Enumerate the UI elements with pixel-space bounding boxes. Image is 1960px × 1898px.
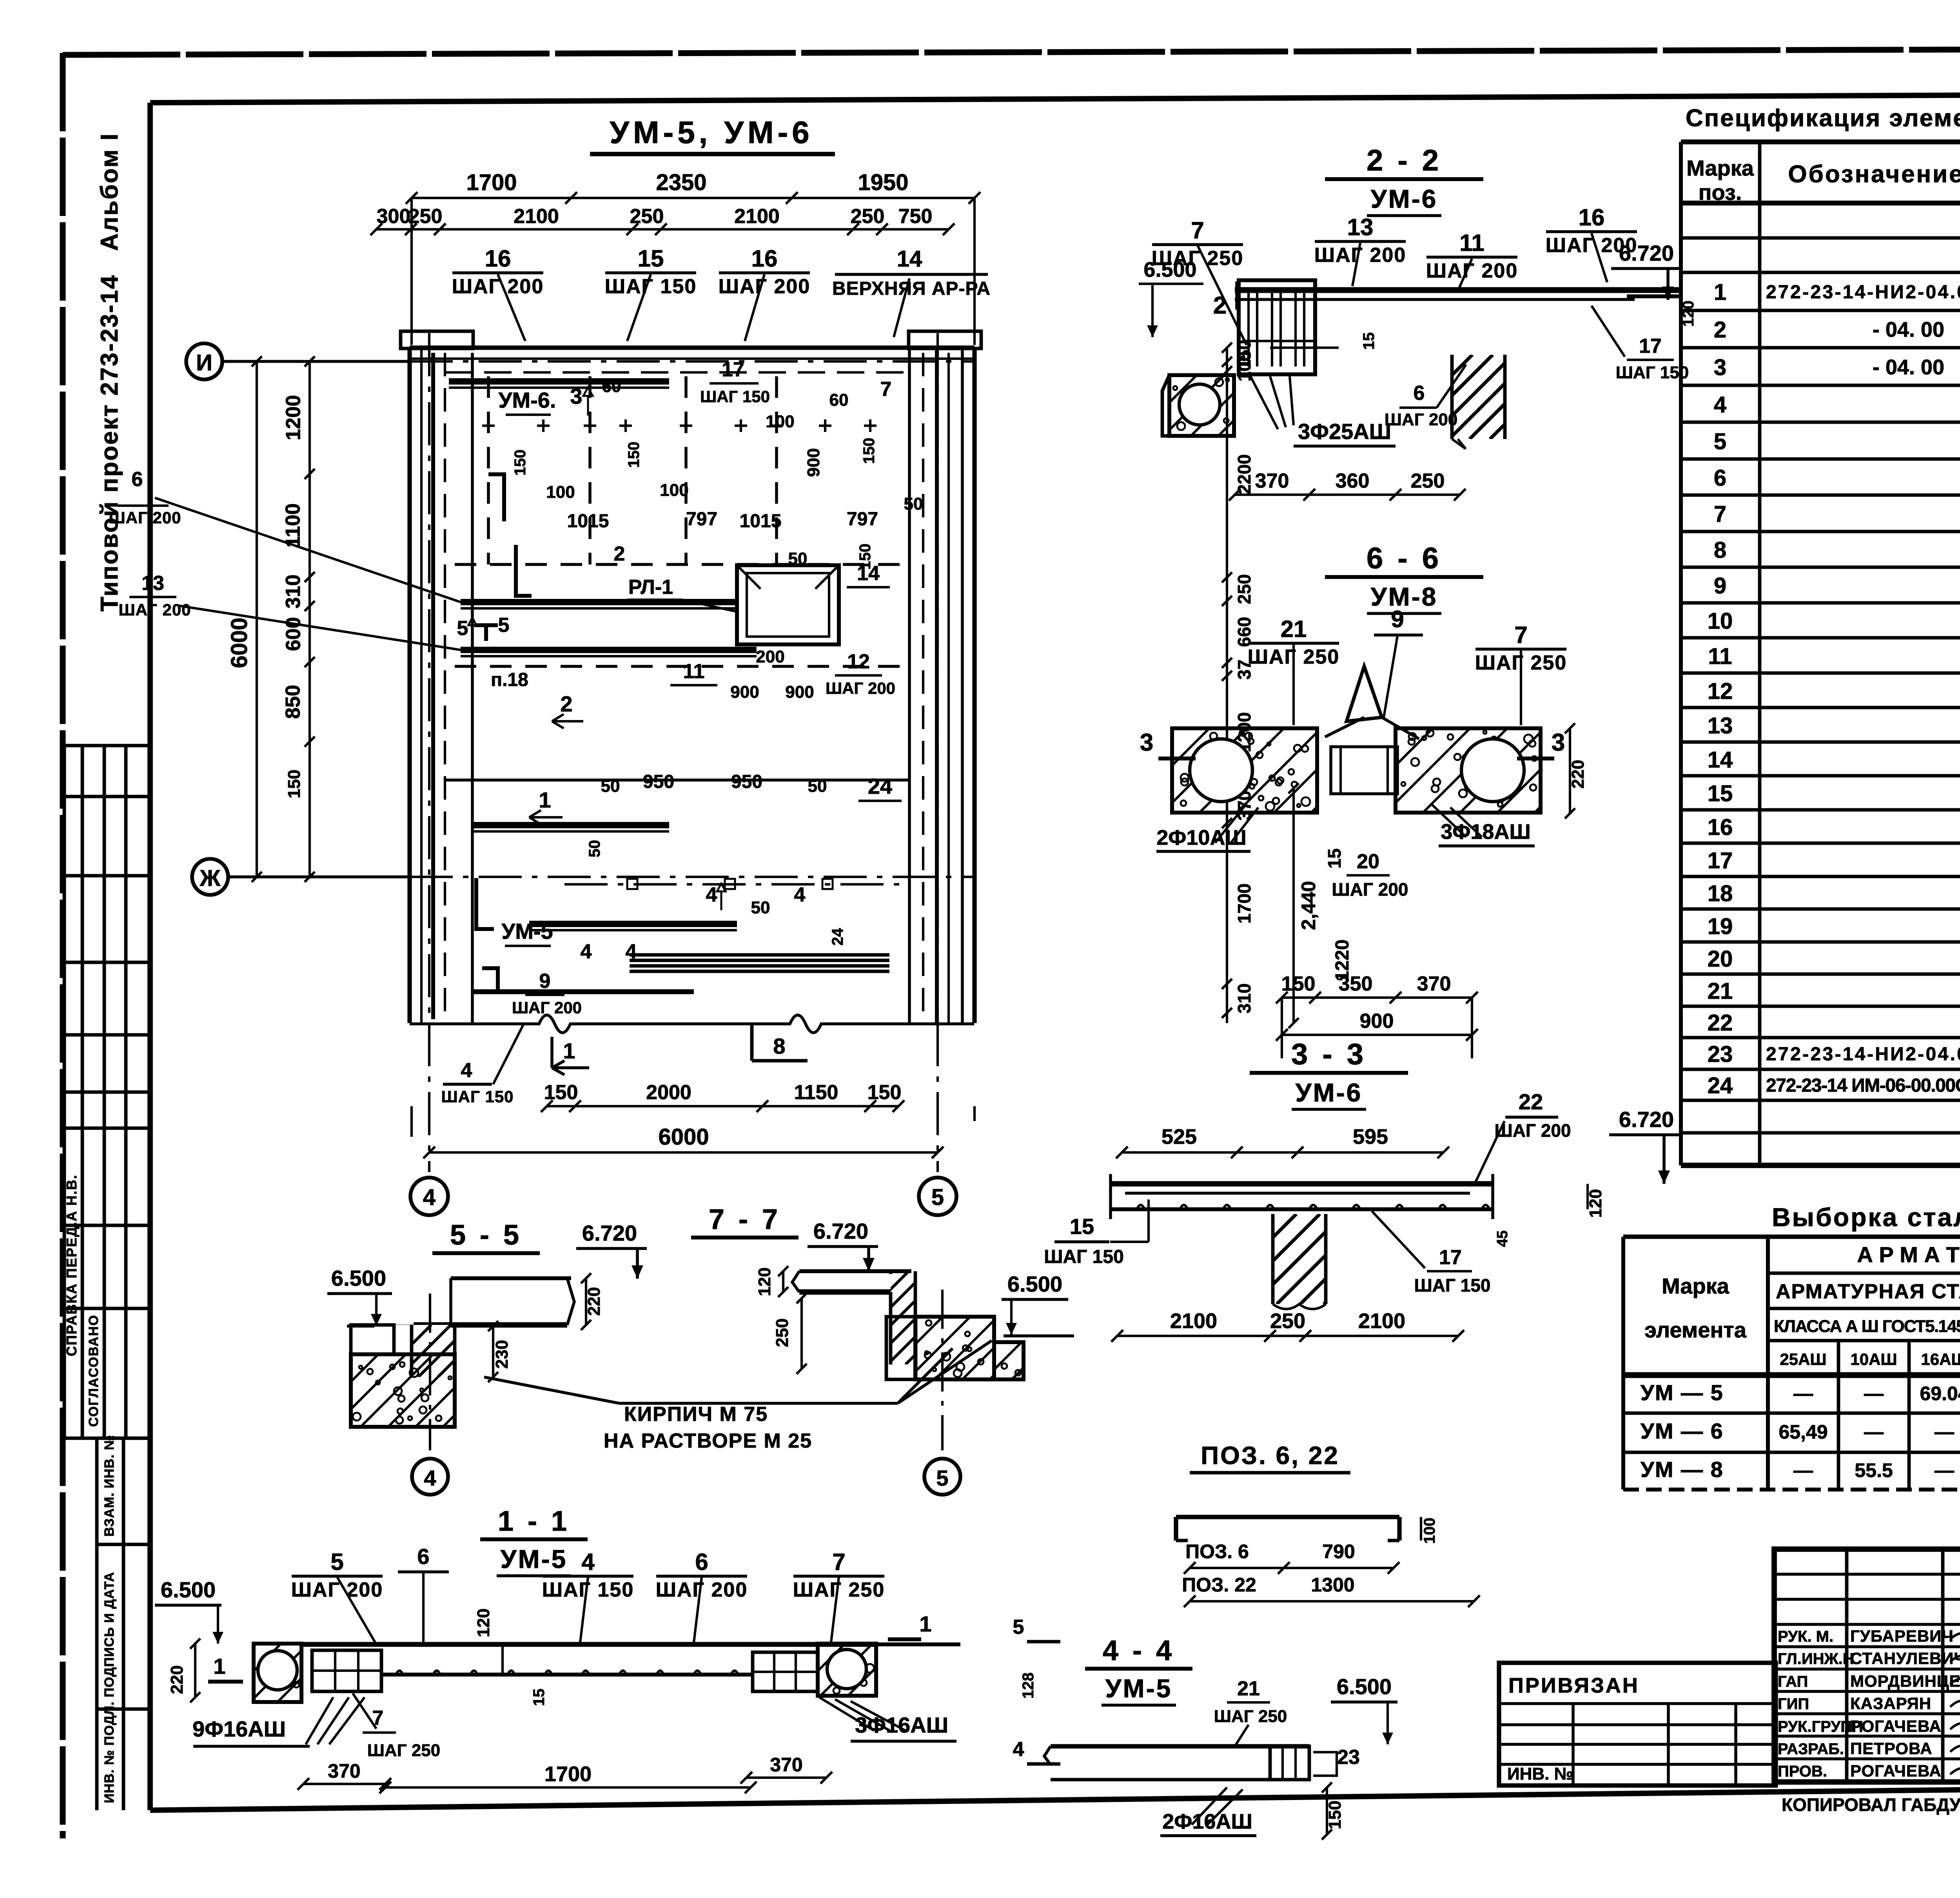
svg-text:5: 5: [1013, 1616, 1024, 1639]
svg-text:6: 6: [1714, 465, 1726, 491]
plan small cross markers: [482, 425, 495, 427]
svg-text:23: 23: [1337, 1746, 1360, 1769]
svg-text:150: 150: [512, 450, 529, 476]
svg-text:150: 150: [625, 442, 642, 468]
svg-text:6.500: 6.500: [161, 1577, 216, 1602]
svg-text:65,49: 65,49: [1779, 1421, 1828, 1443]
svg-text:ШАГ 200: ШАГ 200: [1332, 879, 1408, 900]
svg-text:1: 1: [539, 788, 551, 812]
section 3-3 column: [1183, 1214, 1414, 1304]
plan bottom dims: [547, 1105, 898, 1107]
svg-text:13: 13: [1708, 713, 1733, 739]
svg-text:525: 525: [1161, 1125, 1197, 1149]
section 7-7 axis circle 5: [924, 1459, 960, 1495]
svg-text:ВЗАМ. ИНВ. №: ВЗАМ. ИНВ. №: [102, 1435, 117, 1537]
plan axis dashdot verticals: [428, 333, 430, 1172]
svg-text:ШАГ 150: ШАГ 150: [1414, 1275, 1490, 1296]
section 3-3 slab: [1109, 1181, 1494, 1187]
svg-text:7: 7: [1714, 501, 1726, 527]
svg-text:3: 3: [570, 384, 582, 408]
inner frame bottom: [150, 1783, 1960, 1810]
svg-text:—: —: [1935, 1459, 1954, 1481]
svg-text:ШАГ 150: ШАГ 150: [1044, 1247, 1124, 1267]
plan leader lines from labels: [155, 498, 461, 602]
svg-text:16: 16: [1579, 204, 1605, 230]
section 6-6 bottom dims: [1282, 996, 1472, 999]
section 6-6 monolith triangle: [1347, 666, 1382, 721]
svg-text:5: 5: [1714, 429, 1726, 454]
section 2-2 hatched wall: [1368, 355, 1574, 439]
plan left dim chain: [309, 361, 311, 877]
svg-text:200: 200: [756, 647, 784, 666]
svg-text:16: 16: [485, 245, 511, 272]
svg-text:310: 310: [1234, 983, 1254, 1014]
svg-text:6000: 6000: [227, 617, 252, 668]
svg-text:И: И: [196, 350, 212, 376]
svg-text:5: 5: [457, 617, 468, 640]
inner frame top: [150, 93, 1960, 103]
svg-text:13: 13: [1347, 214, 1374, 240]
svg-text:5: 5: [936, 1466, 948, 1490]
plan doubled bar shadows: [449, 386, 669, 389]
svg-text:ШАГ 150: ШАГ 150: [700, 387, 770, 406]
section 4-4 slab: [1051, 1744, 1309, 1748]
section 2-2 brick block: [1169, 375, 1234, 436]
svg-text:—: —: [1935, 1421, 1954, 1443]
svg-text:1100: 1100: [282, 503, 305, 548]
svg-text:797: 797: [847, 509, 878, 530]
svg-text:21: 21: [1708, 978, 1733, 1004]
svg-text:1: 1: [213, 1654, 225, 1678]
section 1-1 slab: [301, 1642, 876, 1647]
svg-text:ПЕТРОВА: ПЕТРОВА: [1850, 1739, 1933, 1758]
svg-text:ШАГ 200: ШАГ 200: [109, 508, 181, 527]
svg-text:850: 850: [282, 685, 305, 719]
svg-text:22: 22: [1519, 1089, 1543, 1114]
sidebar approval table: [64, 744, 149, 748]
svg-text:6.500: 6.500: [1337, 1674, 1392, 1699]
svg-text:1: 1: [1714, 279, 1726, 305]
plan opening RL-1: [737, 565, 839, 644]
svg-text:УМ-5: УМ-5: [501, 919, 553, 944]
svg-text:128: 128: [1020, 1673, 1037, 1699]
svg-text:Ж: Ж: [200, 866, 221, 891]
svg-text:250: 250: [630, 205, 664, 228]
svg-text:60: 60: [602, 377, 621, 396]
svg-text:ПРИВЯЗАН: ПРИВЯЗАН: [1508, 1674, 1639, 1697]
svg-text:21: 21: [1237, 1677, 1260, 1700]
plan hidden opening dashed: [487, 376, 490, 564]
svg-text:- 04. 00: - 04. 00: [1873, 318, 1944, 341]
svg-text:2: 2: [1213, 292, 1227, 319]
plan axis I: [186, 343, 222, 379]
svg-text:6.720: 6.720: [1619, 1107, 1674, 1132]
svg-text:1 - 1: 1 - 1: [498, 1506, 570, 1537]
section 5-5 axis: [429, 1294, 431, 1450]
svg-text:5: 5: [498, 614, 510, 637]
svg-text:6000: 6000: [658, 1124, 709, 1150]
svg-text:3: 3: [1714, 355, 1726, 380]
svg-text:900: 900: [1360, 1010, 1394, 1032]
table 1 grid: [1681, 140, 1960, 145]
svg-text:КЛАССА А Ш ГОСТ5.1459-72, Ф мм: КЛАССА А Ш ГОСТ5.1459-72, Ф мм: [1774, 1317, 1960, 1336]
svg-text:УМ — 6: УМ — 6: [1641, 1419, 1724, 1443]
svg-text:3Ф16АШ: 3Ф16АШ: [855, 1713, 948, 1737]
section 5-5 axis circle 4: [412, 1459, 448, 1495]
svg-text:6.500: 6.500: [331, 1266, 386, 1290]
svg-text:797: 797: [686, 509, 717, 530]
svg-text:250: 250: [408, 205, 443, 228]
svg-text:15: 15: [1324, 848, 1345, 868]
svg-text:900: 900: [730, 682, 759, 702]
svg-text:6.720: 6.720: [813, 1219, 868, 1243]
section 2-2 karkas box: [1239, 280, 1315, 374]
svg-text:25АШ: 25АШ: [1780, 1350, 1826, 1368]
svg-text:16АШ: 16АШ: [1921, 1350, 1960, 1368]
svg-text:8: 8: [773, 1034, 785, 1058]
svg-text:1700: 1700: [466, 170, 517, 195]
svg-text:16: 16: [1708, 815, 1733, 840]
svg-text:РОГАЧЕВА: РОГАЧЕВА: [1850, 1762, 1942, 1780]
svg-text:16: 16: [751, 245, 778, 272]
svg-text:2,440: 2,440: [1298, 881, 1319, 930]
plan axis Zh: [192, 859, 228, 895]
section 1-1 left karkas box: [312, 1650, 381, 1691]
svg-text:14: 14: [897, 246, 922, 272]
svg-text:ШАГ 200: ШАГ 200: [1385, 410, 1458, 429]
svg-text:6: 6: [417, 1544, 429, 1569]
svg-text:УМ — 5: УМ — 5: [1641, 1380, 1724, 1405]
svg-text:790: 790: [1322, 1541, 1355, 1562]
svg-text:10АШ: 10АШ: [1850, 1350, 1897, 1368]
svg-text:15: 15: [1070, 1214, 1094, 1239]
outer border left: [60, 53, 66, 1838]
section 2-2 bottom dims: [1235, 494, 1460, 496]
svg-text:230: 230: [492, 1340, 512, 1368]
svg-text:1: 1: [919, 1611, 931, 1636]
svg-text:272-23-14-НИ2-04.00: 272-23-14-НИ2-04.00: [1766, 282, 1960, 303]
inner frame left: [147, 103, 153, 1810]
svg-text:1015: 1015: [567, 511, 609, 532]
svg-text:9Ф16АШ: 9Ф16АШ: [192, 1717, 286, 1741]
svg-text:РЛ-1: РЛ-1: [628, 576, 673, 599]
table 2 grid: [1623, 1234, 1960, 1239]
svg-text:КОПИРОВАЛ ГАБДУЛКИНА: КОПИРОВАЛ ГАБДУЛКИНА: [1782, 1795, 1960, 1815]
svg-text:1950: 1950: [858, 170, 908, 195]
plan top dimension chain 2: [376, 228, 949, 230]
plan bottom break line: [410, 1015, 974, 1033]
plan axis circle 5: [919, 1178, 956, 1215]
section 7-7 axis: [941, 1290, 944, 1450]
svg-text:11: 11: [1459, 230, 1484, 256]
plan top dimension chain 1: [412, 197, 975, 199]
svg-text:ШАГ 200: ШАГ 200: [452, 275, 544, 298]
svg-text:2100: 2100: [514, 205, 559, 228]
svg-text:15: 15: [638, 245, 664, 272]
svg-text:1: 1: [563, 1038, 575, 1063]
svg-text:120: 120: [474, 1608, 493, 1637]
svg-text:9: 9: [539, 970, 551, 993]
svg-text:4: 4: [581, 940, 592, 963]
svg-text:11: 11: [1708, 644, 1732, 669]
svg-text:4: 4: [1714, 392, 1726, 417]
section 7-7 brick support: [915, 1317, 994, 1379]
svg-text:19: 19: [1708, 914, 1733, 939]
svg-text:2Ф16АШ: 2Ф16АШ: [1162, 1810, 1252, 1833]
svg-text:17: 17: [1439, 1246, 1462, 1269]
svg-text:Спецификация элементов монол: Спецификация элементов монолитных участк…: [1686, 105, 1960, 132]
svg-text:УМ-5: УМ-5: [1105, 1674, 1172, 1703]
svg-text:ПОДПИСЬ И ДАТА: ПОДПИСЬ И ДАТА: [102, 1572, 117, 1697]
svg-text:370: 370: [1417, 973, 1451, 995]
svg-text:100: 100: [660, 481, 688, 500]
plan axis I line through plan: [410, 360, 975, 363]
svg-text:1150: 1150: [794, 1081, 838, 1104]
svg-text:ПОЗ. 6: ПОЗ. 6: [1185, 1541, 1249, 1562]
svg-text:ШАГ 150: ШАГ 150: [441, 1087, 514, 1106]
svg-text:Марка: Марка: [1686, 156, 1754, 180]
svg-text:АРМАТУРНАЯ СТАЛЬ: АРМАТУРНАЯ СТАЛЬ: [1776, 1280, 1960, 1303]
svg-text:—: —: [1864, 1383, 1884, 1404]
svg-text:900: 900: [785, 682, 814, 702]
svg-text:ПОЗ. 22: ПОЗ. 22: [1182, 1574, 1256, 1596]
svg-text:ГЛ.ИНЖ.Н: ГЛ.ИНЖ.Н: [1778, 1650, 1854, 1668]
svg-text:22: 22: [1708, 1010, 1733, 1036]
title block staff grid: [1774, 1573, 1960, 1576]
svg-text:ГАП: ГАП: [1778, 1673, 1808, 1690]
section 5-5 slab: [451, 1276, 571, 1280]
svg-text:3: 3: [1552, 729, 1565, 756]
svg-text:4: 4: [1013, 1738, 1024, 1761]
svg-text:4: 4: [794, 884, 806, 906]
svg-text:3: 3: [1140, 729, 1153, 756]
svg-text:2350: 2350: [656, 170, 706, 195]
plan axis circle 4: [410, 1178, 448, 1215]
svg-text:—: —: [1793, 1383, 1813, 1404]
svg-text:ВЕРХНЯЯ АР-РА: ВЕРХНЯЯ АР-РА: [832, 278, 991, 299]
svg-text:4: 4: [581, 1549, 595, 1575]
svg-text:100: 100: [1421, 1518, 1438, 1544]
plan walls: [401, 331, 473, 348]
svg-text:1700: 1700: [544, 1762, 592, 1786]
svg-text:УМ-6: УМ-6: [1296, 1078, 1363, 1107]
svg-text:ШАГ 250: ШАГ 250: [367, 1741, 441, 1760]
section 7-7 wall drop: [797, 1271, 999, 1365]
svg-text:элемента: элемента: [1644, 1317, 1747, 1342]
svg-text:6: 6: [695, 1549, 708, 1575]
svg-text:272-23-14 ИМ-06-00.00Сб: 272-23-14 ИМ-06-00.00Сб: [1766, 1075, 1960, 1096]
svg-text:3Ф25АШ: 3Ф25АШ: [1298, 419, 1391, 444]
svg-text:15: 15: [1360, 332, 1377, 350]
section 1-1 right karkas box: [753, 1652, 818, 1691]
section 3-3 top dims: [1122, 1151, 1443, 1154]
svg-text:НА РАСТВОРЕ М 25: НА РАСТВОРЕ М 25: [604, 1430, 812, 1452]
svg-text:120: 120: [1586, 1189, 1605, 1218]
svg-text:ШАГ 200: ШАГ 200: [291, 1579, 383, 1601]
svg-text:9: 9: [1714, 573, 1726, 599]
svg-text:50: 50: [808, 777, 827, 796]
svg-text:55.5: 55.5: [1855, 1459, 1893, 1481]
detail poz 6 bar: [1176, 1515, 1399, 1519]
svg-text:1015: 1015: [740, 511, 782, 532]
svg-text:7: 7: [880, 378, 892, 401]
svg-text:7: 7: [1191, 217, 1204, 243]
svg-text:9: 9: [1391, 606, 1404, 632]
svg-text:250: 250: [1234, 574, 1254, 604]
svg-text:220: 220: [584, 1287, 604, 1316]
svg-text:Выборка стали на 1 изделие,: Выборка стали на 1 изделие, кг: [1772, 1203, 1960, 1232]
svg-text:ИНВ. №: ИНВ. №: [1507, 1764, 1573, 1784]
svg-text:Обозначение: Обозначение: [1788, 161, 1960, 188]
svg-text:150: 150: [285, 769, 304, 798]
svg-text:2100: 2100: [734, 205, 780, 228]
svg-text:20: 20: [1357, 850, 1379, 873]
svg-text:2: 2: [1714, 317, 1726, 343]
section 3-3 bottom dims: [1117, 1335, 1458, 1337]
svg-text:ШАГ 200: ШАГ 200: [826, 679, 895, 697]
privyazan table: [1499, 1663, 1776, 1785]
svg-text:100: 100: [546, 483, 575, 502]
svg-text:поз.: поз.: [1699, 180, 1742, 205]
svg-text:КАЗАРЯН: КАЗАРЯН: [1850, 1694, 1931, 1713]
svg-text:5 - 5: 5 - 5: [450, 1219, 522, 1251]
svg-text:250: 250: [773, 1318, 792, 1347]
plan left dim 6000: [256, 361, 258, 877]
svg-text:СОГЛАСОВАНО: СОГЛАСОВАНО: [86, 1314, 101, 1427]
svg-text:21: 21: [1281, 616, 1307, 642]
svg-text:4: 4: [626, 940, 637, 963]
svg-text:УМ-8: УМ-8: [1371, 582, 1438, 611]
svg-text:220: 220: [1568, 760, 1588, 788]
svg-text:370: 370: [770, 1754, 802, 1776]
svg-text:6: 6: [1414, 382, 1425, 405]
svg-text:6.720: 6.720: [1619, 241, 1674, 265]
plan reinforcement bars: [449, 378, 669, 385]
svg-text:- 04. 00: - 04. 00: [1873, 356, 1944, 379]
svg-text:—: —: [1864, 1421, 1884, 1443]
svg-text:69.04: 69.04: [1920, 1383, 1960, 1404]
svg-text:11: 11: [683, 660, 705, 683]
svg-text:350: 350: [1339, 973, 1373, 995]
svg-text:50: 50: [586, 840, 603, 858]
svg-text:60: 60: [829, 390, 849, 410]
svg-text:2100: 2100: [1170, 1309, 1217, 1333]
svg-text:6.500: 6.500: [1007, 1272, 1062, 1296]
svg-text:4: 4: [461, 1059, 472, 1082]
svg-text:2: 2: [614, 543, 625, 565]
svg-text:150: 150: [860, 438, 878, 464]
svg-text:6 - 6: 6 - 6: [1367, 542, 1442, 575]
svg-text:150: 150: [1281, 973, 1316, 995]
svg-text:370: 370: [1255, 470, 1289, 492]
svg-text:14: 14: [1708, 747, 1733, 773]
svg-text:13: 13: [142, 572, 164, 595]
svg-text:23: 23: [1708, 1042, 1733, 1067]
svg-text:24: 24: [829, 928, 846, 945]
plan axis Zh line through plan: [410, 876, 975, 878]
svg-text:4: 4: [706, 884, 717, 906]
svg-text:РОГАЧЕВА: РОГАЧЕВА: [1850, 1717, 1942, 1735]
svg-text:7: 7: [832, 1549, 845, 1575]
section 5-5 brick support: [351, 1325, 455, 1427]
svg-text:Марка: Марка: [1662, 1274, 1730, 1298]
svg-text:150: 150: [544, 1081, 578, 1104]
svg-text:370: 370: [328, 1760, 360, 1782]
svg-text:СПРАВКА ПЕРЕД.А Н.В.: СПРАВКА ПЕРЕД.А Н.В.: [64, 1174, 80, 1356]
svg-text:20: 20: [1708, 946, 1733, 972]
svg-text:4: 4: [423, 1185, 436, 1210]
svg-text:950: 950: [731, 771, 762, 792]
svg-text:Альбом I: Альбом I: [96, 132, 123, 251]
svg-text:3Ф18АШ: 3Ф18АШ: [1441, 820, 1530, 844]
svg-text:150: 150: [1325, 1800, 1345, 1829]
plan right dim chain outer: [1292, 788, 1295, 1023]
title block outer: [1774, 1549, 1960, 1782]
svg-text:2 - 2: 2 - 2: [1367, 144, 1442, 177]
svg-text:5: 5: [931, 1185, 944, 1210]
svg-text:14: 14: [857, 562, 880, 585]
svg-text:5: 5: [330, 1549, 343, 1575]
svg-text:ШАГ 150: ШАГ 150: [1616, 363, 1689, 382]
svg-text:12: 12: [847, 650, 870, 673]
svg-text:250: 250: [1411, 470, 1445, 492]
svg-text:УМ-6.: УМ-6.: [499, 388, 556, 412]
section 1-1 right hollow block: [818, 1644, 876, 1696]
svg-text:50: 50: [601, 777, 620, 796]
svg-text:ИНВ. № ПОДЛ.: ИНВ. № ПОДЛ.: [102, 1701, 117, 1803]
svg-text:—: —: [1793, 1459, 1813, 1481]
section 1-1 bottom dims: [303, 1783, 385, 1785]
svg-text:6.500: 6.500: [1143, 258, 1196, 281]
svg-text:17: 17: [1708, 848, 1733, 873]
sidebar lower boxes: [97, 1437, 149, 1440]
svg-text:ШАГ 250: ШАГ 250: [1214, 1707, 1287, 1726]
svg-text:УМ-6: УМ-6: [1371, 184, 1438, 213]
svg-text:2000: 2000: [646, 1081, 691, 1104]
svg-text:6: 6: [132, 468, 143, 491]
outer border top: [63, 48, 1960, 55]
svg-text:п.18: п.18: [491, 670, 528, 690]
svg-text:120: 120: [1680, 301, 1697, 327]
svg-text:250: 250: [851, 205, 885, 228]
svg-text:12: 12: [1708, 679, 1733, 704]
svg-text:ГУБАРЕВИЧ: ГУБАРЕВИЧ: [1850, 1627, 1954, 1645]
svg-text:310: 310: [282, 575, 305, 609]
svg-text:24: 24: [1708, 1073, 1733, 1098]
svg-text:50: 50: [904, 494, 923, 514]
svg-text:900: 900: [804, 448, 823, 477]
svg-text:360: 360: [1336, 470, 1370, 492]
svg-text:4 - 4: 4 - 4: [1103, 1635, 1175, 1666]
svg-text:РУК. М.: РУК. М.: [1778, 1628, 1833, 1645]
svg-text:750: 750: [898, 205, 933, 228]
svg-text:ШАГ 200: ШАГ 200: [118, 601, 191, 619]
svg-text:300: 300: [377, 205, 411, 228]
svg-text:4: 4: [424, 1466, 436, 1490]
plan small vertical bars: [488, 474, 504, 521]
svg-text:595: 595: [1353, 1125, 1388, 1149]
svg-text:УМ-5, УМ-6: УМ-5, УМ-6: [610, 115, 813, 150]
svg-text:8: 8: [1714, 537, 1726, 563]
svg-text:Типовой проект 273-23-14: Типовой проект 273-23-14: [96, 274, 123, 611]
svg-text:2200: 2200: [1234, 454, 1254, 494]
svg-text:УМ-5: УМ-5: [501, 1544, 568, 1573]
section 2-2 leaders 3f25: [1250, 376, 1278, 429]
svg-text:3 - 3: 3 - 3: [1291, 1038, 1367, 1071]
svg-text:2Ф10АШ: 2Ф10АШ: [1156, 826, 1246, 849]
section 1-1 left hollow block: [254, 1644, 301, 1702]
svg-text:6.720: 6.720: [582, 1221, 637, 1245]
